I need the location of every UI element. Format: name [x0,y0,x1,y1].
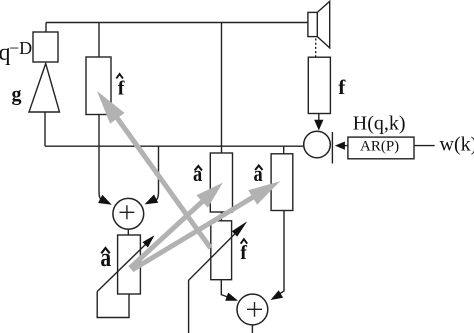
arrowhead adjust a-hat [143,235,155,247]
svg-text:−D: −D [9,38,32,58]
box fills (white underlays) [33,32,414,280]
wire bus tap to a-hat right [283,146,285,154]
gray copy arrow A (lower f-hat to upper f-hat) [97,91,211,248]
svg-text:g: g [12,84,22,106]
summer circle 2 [237,294,268,325]
filter box f-hat upper [86,57,111,115]
wire summer2 output [251,325,253,333]
gray copy arrow C (lower a-hat to right a-hat) [132,181,280,270]
arrowhead summer2 right [271,290,284,300]
loudspeaker horn [317,1,329,48]
summer circle 1 [113,198,144,229]
feedback loop below a-hat lower [97,292,129,318]
svg-text:H(q,k): H(q,k) [353,112,406,134]
microphone circle [304,131,331,158]
wire q-D drop [45,23,47,33]
wire summer1 to a-hat lower [127,229,129,235]
svg-text:AR(P): AR(P) [360,138,399,154]
adjust arrow line f-hat lower [189,233,236,333]
wire w(k) input [414,145,435,147]
arrow f to microphone [318,114,320,121]
amplifier g triangle [29,64,60,113]
wire bottom bus [45,145,304,147]
filter box f-hat lower [211,221,232,280]
label q^-D [0,38,32,66]
wire g to bottom bus [44,112,46,146]
dotted acoustic path [315,39,317,57]
delay box q^-D [33,32,58,62]
svg-text:a: a [193,161,202,186]
svg-text:w(k): w(k) [440,134,474,156]
plus sign 2 [247,302,262,317]
arrowhead adjust f-hat [232,221,247,236]
arrowhead summer2 left [225,293,238,301]
filter box a-hat right [271,154,293,211]
svg-text:f: f [240,242,247,264]
wire a-hat middle to f-hat lower [220,212,222,221]
plant box f [308,57,330,113]
wire top bus to a-hat middle [221,23,223,154]
arrow AR to microphone [345,145,348,147]
microphone bar [331,132,333,164]
arrowhead summer1 left [98,195,112,205]
plus sign 1 [120,205,135,219]
wire f-hat output down [98,115,100,193]
adjust arrow through a-hat lower [97,244,146,292]
filter box a-hat middle [210,153,232,212]
adaptive filter box a-hat lower [118,235,141,294]
wire top bus [46,22,308,24]
wire f-hat lower to summer2 [221,280,227,297]
wire tap to summer1 right [155,146,159,201]
svg-text:f: f [338,75,346,99]
noise model box AR(P) [348,137,414,159]
wire f-hat drop [98,23,100,58]
loudspeaker driver box [308,12,317,36]
arrowhead summer1 right [145,195,159,205]
wire into summer1 left [99,192,103,201]
svg-text:f: f [118,77,125,99]
gray copy arrow B (lower a-hat to middle a-hat) [130,183,223,268]
wire a-hat right to summer2 [280,211,284,294]
